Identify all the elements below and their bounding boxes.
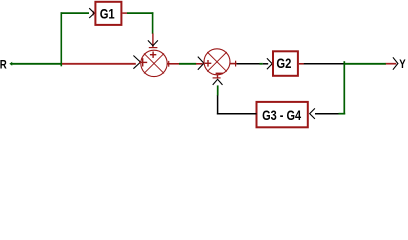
summing junction S1: [141, 50, 167, 76]
svg-text:G1: G1: [100, 5, 115, 21]
svg-text:G3 - G4: G3 - G4: [262, 107, 301, 123]
wire summer1 to summer2: [179, 63, 196, 65]
port stub G2 right: [299, 63, 304, 65]
sign plus top of S1: [150, 52, 156, 58]
wire R to branch node: [12, 63, 62, 65]
port tick G1 left: [92, 11, 94, 16]
port stub summer2 right: [230, 61, 237, 67]
arrowhead at Y: [393, 57, 398, 69]
sign plus left of S2: [205, 60, 212, 67]
port stub G1 right: [122, 12, 127, 14]
wire across to G1: [61, 12, 90, 14]
block G3-G4: [257, 102, 308, 127]
wire feedback down from junction: [343, 61, 345, 114]
block G1: [95, 2, 121, 25]
wire branch to summer1: [62, 63, 136, 65]
svg-text:G2: G2: [276, 55, 291, 71]
arrowhead into summer1 left: [133, 56, 140, 69]
summing junction S2: [204, 49, 230, 75]
node R: [0, 58, 7, 72]
wire feedback up to summer2: [217, 85, 219, 114]
port stub summer2 left: [196, 63, 203, 65]
node Y: [399, 57, 405, 71]
arrowhead into G1: [89, 8, 94, 18]
wire branch up to G1 row (junction tick below): [60, 12, 62, 66]
arrowhead into G2: [267, 58, 272, 69]
arrowhead into summer2 left: [198, 57, 204, 70]
svg-text:Y: Y: [399, 57, 405, 71]
wire junction to output port: [344, 63, 387, 65]
wire G1 to corner: [127, 12, 153, 14]
input port arrow at R: [9, 62, 12, 66]
sign minus bottom of S2: [216, 72, 223, 74]
sign plus left of S1: [139, 58, 147, 66]
port stub summer2 bottom: [213, 75, 221, 79]
port stub output Y: [386, 63, 396, 65]
port stub summer1 right: [167, 61, 179, 67]
wire G2 to output junction: [304, 63, 344, 65]
wire corner down towards summer1: [152, 12, 154, 34]
wire feedback leftwards: [315, 113, 345, 115]
arrowhead into summer2 bottom: [213, 79, 223, 85]
arrowhead into summer1 top: [148, 40, 158, 45]
wire summer2 to G2: [237, 63, 269, 65]
svg-text:R: R: [0, 58, 7, 72]
port stub summer1 top: [149, 33, 158, 47]
arrowhead into G3-G4 right: [310, 108, 315, 119]
block G2: [273, 51, 298, 76]
wire G3-G4 left to corner: [217, 113, 257, 115]
